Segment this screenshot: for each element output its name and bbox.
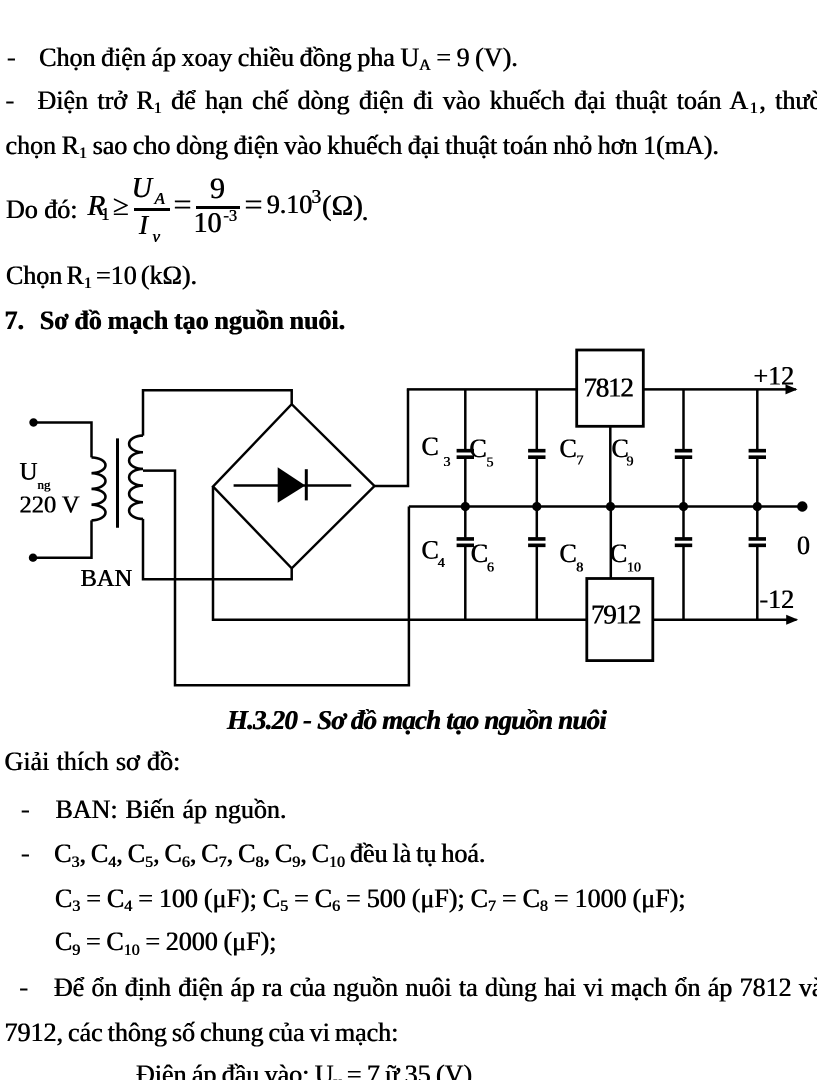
- node: 0 output terminal: [797, 501, 807, 511]
- svg-text:C: C: [471, 539, 488, 568]
- capacitor column D wire mid: [682, 459, 685, 507]
- wire: -12 rail right of 7912: [653, 619, 797, 622]
- capacitor C4 column wire bottom: [464, 547, 467, 620]
- capacitor column E wire bottom: [756, 547, 759, 620]
- capacitor C5 column wire bottom: [536, 459, 539, 507]
- capacitor C4 column wire top: [464, 507, 467, 538]
- node junction D: [679, 502, 688, 511]
- text line 3: [6, 133, 719, 159]
- svg-text:6: 6: [487, 561, 494, 576]
- label C9: [612, 434, 634, 470]
- svg-text:7812: 7812: [584, 372, 634, 402]
- label C6: [471, 539, 494, 576]
- svg-text:C: C: [610, 539, 627, 568]
- node: input terminal top: [29, 418, 37, 426]
- capacitor column E wire top: [756, 389, 759, 449]
- capacitor C3/C5 plates: [457, 449, 474, 453]
- capacitor column D wire top: [682, 389, 685, 449]
- formula line: Do đó: R1 >= UA/Iv = 9/10^-3 = 9.10^3 (Ohm): [6, 197, 78, 223]
- svg-text:7912: 7912: [591, 600, 641, 630]
- label C8: [560, 539, 584, 576]
- explanation block: [5, 749, 181, 775]
- capacitor column E plates top: [749, 449, 766, 453]
- svg-text:3: 3: [444, 455, 451, 470]
- svg-text:ng: ng: [38, 477, 52, 492]
- text line 2 (justified, cut at right edge): [6, 88, 15, 114]
- capacitor column D plates bottom: [675, 537, 692, 541]
- label C10: [610, 539, 641, 576]
- capacitor C5 column wire top: [536, 389, 539, 449]
- regulator U2 7912: [587, 579, 653, 661]
- capacitor C3 column wire bottom: [464, 459, 467, 507]
- capacitor C3 column wire top: [464, 389, 467, 449]
- node junction A: [461, 502, 470, 511]
- wire: secondary bottom to bridge AC bottom: [143, 519, 292, 579]
- svg-text:-12: -12: [760, 585, 795, 614]
- capacitor column E wire mid2: [756, 507, 759, 538]
- transformer BAN secondary winding: [129, 436, 143, 519]
- heading 7: [5, 308, 25, 334]
- arrow -12: [786, 615, 798, 625]
- wire: 7812 ground pin C9: [609, 426, 612, 506]
- capacitor column E plates bottom: [749, 537, 766, 541]
- wire: 0 rail: [409, 505, 802, 508]
- wire: top input to primary: [34, 423, 92, 458]
- svg-text:0: 0: [797, 531, 810, 560]
- capacitor column D wire bottom: [682, 547, 685, 620]
- bridge rectifier diamond: [213, 404, 375, 568]
- svg-text:10: 10: [627, 561, 641, 576]
- capacitor column D wire mid2: [682, 507, 685, 538]
- capacitor C4/C6 plates: [457, 537, 474, 541]
- svg-text:8: 8: [576, 561, 583, 576]
- capacitor column E wire mid: [756, 459, 759, 507]
- wire: primary bottom to input terminal: [33, 520, 92, 557]
- capacitor C5/C7 plates: [528, 449, 545, 453]
- transformer core: [116, 438, 119, 527]
- svg-text:4: 4: [438, 556, 445, 571]
- capacitor C6/C8 plates: [528, 537, 545, 541]
- transformer BAN primary winding: [92, 457, 106, 520]
- svg-text:+12: +12: [754, 362, 795, 391]
- wire: top rail left of 7812: [407, 388, 577, 391]
- capacitor C6 column wire top: [536, 507, 539, 538]
- wire: top rail right of 7812: [643, 388, 796, 391]
- svg-text:7: 7: [577, 454, 584, 469]
- wire: center tap to 0 rail: [143, 471, 409, 686]
- wire: bridge - output down and right to -12 rail: [213, 487, 587, 620]
- caption H.3.20: [227, 707, 606, 734]
- regulator U1 7812: [577, 350, 644, 426]
- svg-text:C: C: [560, 434, 577, 463]
- node: input terminal bottom: [29, 554, 37, 562]
- svg-text:9: 9: [627, 455, 634, 470]
- svg-text:C: C: [422, 432, 439, 461]
- capacitor column D plates top: [675, 449, 692, 453]
- svg-text:U: U: [20, 459, 38, 486]
- line: Chon R1 = 10 (kOhm): [6, 263, 197, 289]
- label C4: [422, 536, 445, 572]
- svg-text:C: C: [560, 539, 577, 568]
- arrow +12: [786, 384, 798, 394]
- capacitor C6 column wire bottom: [536, 547, 539, 620]
- node junction C: [606, 502, 615, 511]
- node junction E: [753, 502, 762, 511]
- node junction B: [532, 502, 541, 511]
- svg-text:C: C: [422, 536, 439, 565]
- svg-text:220 V: 220 V: [20, 492, 80, 519]
- wire: 7912 ground pin C10: [610, 507, 613, 579]
- wire: bridge + output up to top rail: [375, 389, 409, 486]
- label C3: [422, 432, 451, 470]
- svg-text:BAN: BAN: [81, 565, 133, 592]
- svg-text:C: C: [469, 434, 486, 463]
- wire: secondary top to bridge AC top: [143, 390, 292, 435]
- diode inside bridge: [234, 484, 352, 487]
- label C7: [560, 434, 584, 469]
- text line 1: [7, 45, 16, 71]
- label C5: [469, 434, 493, 471]
- svg-text:5: 5: [487, 456, 494, 471]
